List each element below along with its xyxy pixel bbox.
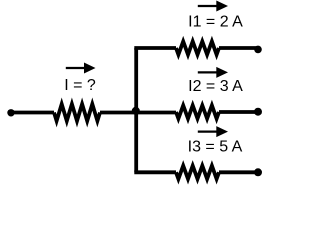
- svg-text:I = ?: I = ?: [64, 77, 96, 94]
- svg-text:I1 = 2 A: I1 = 2 A: [188, 14, 243, 31]
- svg-text:I3 = 5 A: I3 = 5 A: [188, 139, 243, 156]
- svg-text:I2 = 3 A: I2 = 3 A: [188, 78, 243, 95]
